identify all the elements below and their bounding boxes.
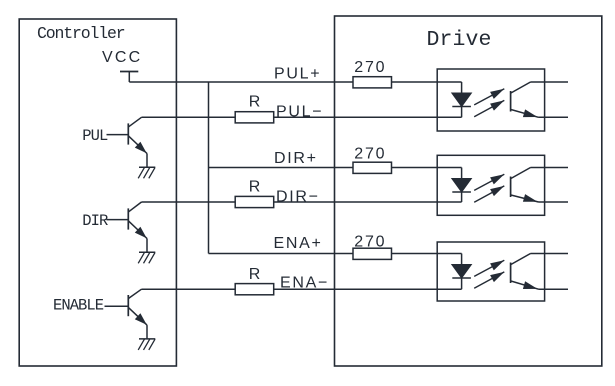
svg-text:PUL: PUL <box>82 127 108 145</box>
svg-text:DIR+: DIR+ <box>274 150 318 167</box>
svg-text:270: 270 <box>354 234 386 251</box>
wire PUL base lead <box>107 134 129 136</box>
transistor Q2 (DIR) <box>128 202 147 239</box>
wire ENA- net left segment (collector to R) <box>142 288 236 290</box>
wire DIR- net right segment into optocoupler <box>274 201 462 203</box>
wire ENA+ net left segment <box>209 253 354 255</box>
ground <box>138 167 155 178</box>
optocoupler U2 (DIR channel) <box>437 155 568 215</box>
wire emitter to ground <box>146 154 148 168</box>
wire PUL- net right segment into optocoupler <box>274 116 462 118</box>
svg-text:R: R <box>249 179 261 196</box>
svg-text:ENABLE: ENABLE <box>53 297 104 315</box>
svg-text:Drive: Drive <box>427 28 492 52</box>
svg-text:DIR−: DIR− <box>276 189 320 206</box>
wire ENA+ net right segment into optocoupler <box>392 253 462 255</box>
svg-text:VCC: VCC <box>102 49 142 66</box>
controller box <box>19 19 176 366</box>
wire DIR+ net left segment <box>209 167 354 169</box>
wire PUL+ net right segment into optocoupler <box>392 81 462 83</box>
wire VCC bus vertical <box>208 82 210 254</box>
resistor R2 value R (PUL- series) <box>235 112 274 123</box>
resistor R6 value R (ENA- series) <box>235 284 274 295</box>
wire ENABLE base lead <box>105 305 129 307</box>
svg-text:270: 270 <box>354 59 386 76</box>
resistor R3 value 270 (DIR+ series) <box>353 162 392 173</box>
ground <box>138 252 155 263</box>
drive box <box>335 16 602 366</box>
resistor R4 value R (DIR- series) <box>235 196 274 207</box>
resistor R5 value 270 (ENA+ series) <box>353 248 392 259</box>
svg-text:PUL+: PUL+ <box>274 66 321 83</box>
svg-text:R: R <box>249 266 261 283</box>
power VCC <box>102 49 142 82</box>
wire DIR- net left segment (collector to R) <box>142 201 236 203</box>
wire DIR+ net right segment into optocoupler <box>392 167 462 169</box>
wire DIR base lead <box>107 219 129 221</box>
transistor Q1 (PUL) <box>128 117 147 153</box>
transistor Q3 (ENABLE) <box>128 289 147 325</box>
svg-text:ENA−: ENA− <box>280 275 329 292</box>
optocoupler U3 (ENA channel) <box>437 242 568 301</box>
optocoupler U1 (PUL channel) <box>437 69 568 131</box>
ground <box>138 339 155 350</box>
svg-text:DIR: DIR <box>82 212 108 230</box>
svg-text:ENA+: ENA+ <box>274 235 323 252</box>
wire PUL+ net left segment <box>129 81 353 83</box>
svg-text:270: 270 <box>354 145 386 162</box>
wire emitter to ground <box>146 325 148 339</box>
svg-text:R: R <box>249 94 261 111</box>
wire ENA- net right segment into optocoupler <box>274 288 462 290</box>
wire emitter to ground <box>146 239 148 253</box>
wire PUL- net left segment (collector to R) <box>142 116 236 118</box>
svg-text:PUL−: PUL− <box>276 104 323 121</box>
svg-text:Controller: Controller <box>37 24 125 43</box>
resistor R1 value 270 (PUL+ series) <box>353 77 392 88</box>
